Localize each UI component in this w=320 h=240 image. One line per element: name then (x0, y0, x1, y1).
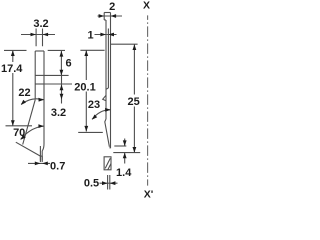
wire main left edge (105, 20, 107, 119)
wire blade bottom edge (109, 147, 110, 149)
arrow 0.5 right (110, 181, 116, 185)
arrow 25 down (133, 147, 137, 153)
svg-text:3.2: 3.2 (33, 18, 48, 30)
wire outer left edge top (103, 13, 105, 21)
section hatch diagonal 2 (108, 164, 111, 170)
svg-text:6: 6 (65, 58, 71, 70)
dimension 0.5 extension lines (108, 175, 110, 190)
arrow 1 right (108, 33, 114, 37)
wire tip bottom edge (40, 155, 42, 157)
arrow 3.2right up (60, 85, 64, 91)
wire 70deg bevel edge (16, 142, 41, 156)
wire bar left edge (34, 51, 36, 100)
dimension 17.4 line (12, 50, 14, 125)
arrow 1.4 up (123, 153, 127, 159)
arrow 0.7 right (42, 162, 48, 166)
arrow 20.1 up (84, 50, 88, 56)
arrow 1.4 down (123, 140, 127, 146)
wire division line 1 (35, 74, 44, 76)
dimension 1.4 line upper (124, 139, 126, 147)
arrow 23 arc right (105, 108, 111, 112)
dimension 17.4 extension bottom (6, 125, 33, 127)
svg-text:3.2: 3.2 (51, 107, 66, 119)
svg-text:X': X' (144, 189, 154, 201)
wire tip left vertical (39, 146, 41, 161)
arrow 1 left (100, 33, 106, 37)
wire bar top cap right view (104, 12, 110, 14)
wire middle line (107, 29, 109, 89)
svg-text:1.4: 1.4 (116, 167, 132, 179)
arrow 0.5 left (102, 181, 108, 185)
left view: pin body outline (16, 51, 44, 161)
wire blade bend sloped edge (105, 119, 110, 147)
svg-text:17.4: 17.4 (1, 63, 23, 75)
arrow 17.4 up (11, 50, 15, 56)
arrow 3.2top right (43, 33, 49, 37)
dimension 3.2 top extension lines (36, 29, 42, 47)
svg-text:1: 1 (87, 30, 93, 42)
svg-text:23: 23 (88, 99, 100, 111)
wire bar top cap (35, 50, 44, 52)
dimension 0.7 line (28, 162, 50, 164)
svg-text:70: 70 (13, 127, 25, 139)
arrow 70 arc left (20, 135, 25, 140)
wire 22deg bent edge (23, 100, 36, 145)
dimension 25 extension top (111, 43, 138, 45)
arrow 25 up (133, 44, 137, 50)
arrow 23 arc left (92, 115, 97, 120)
angle 23 arc (92, 110, 110, 120)
arrow 3.2right down (60, 94, 64, 100)
svg-text:20.1: 20.1 (74, 82, 95, 94)
angle 70 arc (21, 126, 44, 139)
dimension 6 extension top (48, 49, 65, 51)
arrow 6 up (60, 51, 64, 57)
wire bar right edge (42, 51, 44, 151)
dimension 17.4 extension top (4, 49, 27, 51)
arrow 6 down (60, 70, 64, 76)
dimension 3.2 top line (21, 34, 55, 36)
dimension 2 line (98, 15, 123, 17)
arrow 70 arc right (38, 124, 44, 128)
section hatch diagonal 1 (105, 158, 110, 168)
svg-text:2: 2 (109, 1, 115, 13)
arrow 20.1 down (84, 126, 88, 132)
angle 22 arc (21, 99, 43, 105)
arrow 22 arc left (21, 100, 26, 105)
dimension 6 line (60, 51, 62, 75)
svg-text:0.7: 0.7 (50, 161, 65, 173)
svg-text:25: 25 (127, 96, 139, 108)
wire division line 2 (35, 83, 44, 85)
dimension 20.1 extension top (80, 49, 104, 51)
wire tip right vertical (41, 151, 43, 161)
arrow 2 left (99, 14, 105, 18)
arrow 17.4 down (11, 120, 15, 126)
dimension 1.4 line lower (124, 153, 126, 164)
wire outer right edge (110, 13, 112, 149)
dimension 3.2 right extension (div2) (44, 83, 72, 85)
dimension 1.4 / 25 extension bottom (113, 152, 140, 154)
arrow 3.2top left (31, 33, 37, 37)
dimension 3.2 right line (61, 75, 63, 103)
right view: pin body outline (103, 13, 111, 149)
wire notch barb (103, 95, 106, 100)
wire jog at 88 (106, 88, 108, 89)
arrow 0.7 left (35, 162, 41, 166)
dimension 1.4 extension top (114, 145, 126, 147)
dimension 20.1 extension bottom (78, 131, 103, 133)
label 25 (127, 95, 140, 109)
svg-text:0.5: 0.5 (84, 178, 99, 190)
dimension 0.7 extension lines (40, 156, 42, 162)
dimension 6 extension mid (div1) (44, 74, 69, 76)
dimension 20.1 line (85, 50, 87, 131)
label 20.1 (74, 80, 97, 94)
dimension 25 line (133, 44, 135, 152)
svg-text:X: X (143, 0, 150, 12)
arrow 2 right (111, 14, 117, 18)
dimension 0.5 line (100, 182, 118, 184)
arrow 22 arc right (38, 98, 44, 102)
label 17.4 (0, 62, 24, 75)
svg-text:22: 22 (18, 87, 30, 99)
wire step at 20 (104, 19, 106, 21)
section hatch box (104, 157, 111, 170)
arrows (11, 14, 136, 185)
dimension 1 line (95, 34, 117, 36)
centerline X-X' (147, 15, 149, 185)
